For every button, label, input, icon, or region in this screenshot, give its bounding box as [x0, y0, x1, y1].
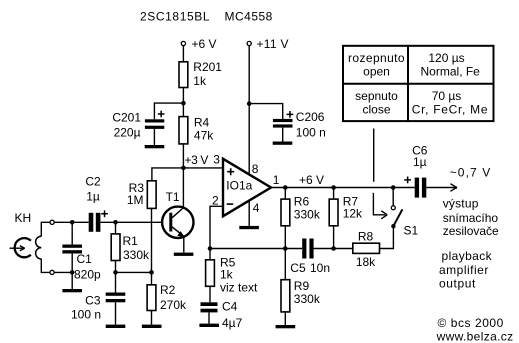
wire R9 to ground	[284, 312, 286, 325]
resistor R201	[179, 62, 188, 88]
ground under C206	[273, 142, 293, 145]
svg-text:2SC1815BL: 2SC1815BL	[140, 9, 210, 23]
svg-text:C206: C206	[296, 110, 325, 124]
node +3V	[181, 166, 186, 171]
svg-text:+11 V: +11 V	[257, 37, 289, 51]
svg-text:100 n: 100 n	[71, 308, 101, 322]
svg-text:10n: 10n	[310, 261, 330, 275]
wire R1 to bias node	[115, 261, 117, 273]
svg-text:100 n: 100 n	[296, 125, 326, 139]
ground under pin 4	[239, 226, 259, 229]
svg-text:zesilovače: zesilovače	[443, 224, 499, 238]
ground under C1	[62, 289, 82, 292]
svg-text:output: output	[439, 277, 476, 291]
wire R4 to +3V node	[182, 144, 184, 168]
wire C1 bottom	[71, 254, 73, 273]
node R2 top	[149, 270, 154, 275]
supply terminal +6V	[181, 41, 185, 45]
svg-text:820p: 820p	[74, 267, 101, 281]
wire node to op-amp pin 3	[183, 167, 223, 169]
resistor R5	[209, 249, 211, 260]
wire +3V node to R3	[152, 168, 184, 181]
node +11V / C206	[247, 101, 252, 106]
capacitor C206	[273, 119, 293, 122]
wire C1 node to ground	[71, 272, 73, 289]
node R5	[208, 246, 213, 251]
wire table to switch	[373, 129, 375, 182]
svg-text:1µ: 1µ	[413, 155, 427, 169]
svg-text:sepnuto: sepnuto	[355, 89, 398, 103]
wire C3 to ground	[115, 302, 117, 324]
svg-text:C201: C201	[112, 110, 141, 124]
supply terminal +11V	[247, 41, 251, 45]
node R1/C3	[113, 270, 118, 275]
svg-text:snímacího: snímacího	[443, 211, 499, 225]
svg-text:3: 3	[213, 153, 220, 167]
node C2/R1/base	[113, 220, 118, 225]
ground under C201	[145, 145, 165, 148]
svg-text:C3: C3	[85, 294, 101, 308]
capacitor C3	[106, 293, 126, 296]
ground under R2	[142, 325, 162, 328]
capacitor C201	[145, 119, 164, 122]
wire R7 top	[333, 188, 335, 200]
svg-text:2: 2	[212, 194, 219, 208]
capacitor C6	[415, 178, 419, 198]
svg-text:+3 V: +3 V	[185, 153, 209, 167]
wire R6 bottom	[284, 226, 286, 249]
transistor T1	[162, 207, 193, 238]
svg-text:R9: R9	[294, 279, 310, 293]
resistor R6	[281, 199, 290, 226]
wire C5 to R8	[314, 248, 353, 250]
svg-text:výstup: výstup	[443, 197, 479, 211]
node R6	[283, 185, 288, 190]
svg-text:MC4558: MC4558	[225, 9, 273, 23]
tape head symbol	[15, 238, 31, 257]
svg-text:4µ7: 4µ7	[222, 316, 243, 330]
svg-text:220µ: 220µ	[114, 125, 141, 139]
wire bottom terminal to C1	[54, 271, 72, 273]
node R7	[331, 185, 336, 190]
svg-text:R201: R201	[193, 60, 222, 74]
ground under R9	[276, 325, 296, 328]
wire node to R1	[115, 222, 117, 234]
switch S1 open contact	[391, 206, 395, 210]
svg-text:KH: KH	[15, 211, 32, 225]
svg-text:Normal, Fe: Normal, Fe	[421, 65, 481, 79]
switch S1 pole dot	[391, 224, 395, 228]
wire terminal to C2	[54, 221, 88, 223]
svg-text:70 µs: 70 µs	[432, 89, 462, 103]
resistor R7	[329, 199, 338, 226]
emitter wire to ground	[183, 236, 185, 253]
svg-text:R1: R1	[123, 234, 139, 248]
capacitor C1	[62, 245, 82, 248]
svg-text:1k: 1k	[220, 267, 234, 281]
svg-text:C4: C4	[222, 300, 238, 314]
svg-text:© bcs 2000: © bcs 2000	[438, 316, 504, 330]
resistor R9	[281, 280, 290, 312]
input terminal bottom	[50, 270, 54, 274]
wire node to C201	[154, 103, 183, 119]
bias line R1/R2	[116, 271, 152, 273]
svg-text:S1: S1	[404, 224, 419, 238]
pin 4 wire	[248, 202, 250, 226]
wire C201 to ground	[153, 129, 155, 145]
wire coil bottom to bottom line	[41, 259, 50, 273]
wire R8 to S1	[380, 226, 394, 248]
node R7 bottom	[331, 246, 336, 251]
wire C2 to base node	[100, 221, 161, 223]
table of time constants	[343, 46, 494, 121]
svg-text:+6 V: +6 V	[192, 37, 217, 51]
node R6/R9	[283, 246, 288, 251]
svg-text:C2: C2	[85, 175, 101, 189]
svg-text:R2: R2	[160, 283, 176, 297]
op-amp minus input mark	[227, 203, 234, 205]
wire C1 top	[71, 222, 73, 244]
svg-text:R8: R8	[358, 229, 374, 243]
svg-text:1µ: 1µ	[86, 189, 100, 203]
switch S1 lever	[394, 209, 403, 225]
ground under C3	[106, 325, 126, 328]
switch S1 wire from output line	[392, 188, 394, 206]
wire C206 to ground	[282, 128, 284, 142]
input terminal top	[50, 220, 54, 224]
resistor R3	[147, 181, 156, 209]
wire R201 to node	[182, 88, 184, 117]
svg-text:12k: 12k	[343, 206, 363, 220]
svg-text:amplifier: amplifier	[439, 263, 489, 277]
capacitor C2	[89, 213, 94, 232]
svg-text:330k: 330k	[123, 248, 150, 262]
wire R6 top	[284, 188, 286, 200]
svg-text:playback: playback	[442, 249, 493, 263]
wire R2 to ground	[151, 311, 153, 325]
capacitor C5	[302, 239, 306, 259]
ground under T1	[174, 253, 194, 256]
wire node to C206	[249, 104, 283, 119]
node C1 bottom	[70, 270, 75, 275]
svg-text:IO1a: IO1a	[226, 178, 252, 192]
svg-text:18k: 18k	[356, 255, 376, 269]
svg-text:1M: 1M	[127, 193, 144, 207]
wire coil top to input line	[41, 222, 50, 236]
wire C4 to ground	[208, 312, 210, 323]
wire +6V to R201	[182, 46, 184, 62]
wire node to C3	[115, 272, 117, 292]
resistor R8	[353, 243, 380, 253]
wire +11V down to op-amp pin 8	[248, 46, 250, 175]
node R201/C201/R4	[181, 101, 186, 106]
svg-text:open: open	[363, 65, 390, 79]
svg-text:C1: C1	[77, 252, 93, 266]
op-amp plus input mark	[227, 168, 234, 175]
svg-text:viz text: viz text	[220, 281, 258, 295]
svg-text:T1: T1	[166, 190, 180, 204]
svg-text:R6: R6	[294, 194, 310, 208]
ground under C4	[199, 324, 219, 327]
wire R2 top	[151, 272, 153, 284]
svg-text:www.belza.cz: www.belza.cz	[436, 330, 514, 343]
svg-text:Cr, FeCr, Me: Cr, FeCr, Me	[412, 103, 488, 117]
node S1/C6	[391, 185, 396, 190]
resistor R1	[111, 234, 120, 261]
wire R7 bottom	[333, 226, 335, 249]
head coil	[36, 236, 42, 259]
pin 2 wire	[210, 206, 223, 248]
resistor R2	[147, 285, 156, 311]
svg-text:330k: 330k	[294, 207, 321, 221]
output line from pin 1	[271, 187, 415, 189]
svg-text:close: close	[362, 103, 390, 117]
svg-text:270k: 270k	[160, 298, 187, 312]
svg-text:4: 4	[253, 201, 260, 215]
svg-text:~0,7 V: ~0,7 V	[450, 166, 492, 180]
wire R9 top	[284, 249, 286, 280]
node C1 top	[70, 220, 75, 225]
resistor R4	[179, 117, 188, 144]
op-amp IO1a	[223, 159, 271, 216]
svg-text:8: 8	[252, 162, 259, 176]
svg-text:rozepnuto: rozepnuto	[348, 51, 405, 65]
svg-text:120 µs: 120 µs	[428, 51, 464, 65]
capacitor C4	[201, 302, 218, 306]
wire R3 down to bias node	[151, 208, 153, 272]
feedback line	[210, 248, 302, 250]
svg-text:47k: 47k	[194, 129, 214, 143]
transistor T1 collector wire	[182, 168, 184, 209]
svg-text:R4: R4	[194, 115, 210, 129]
arrow table to switch	[373, 193, 385, 215]
svg-text:330k: 330k	[294, 292, 321, 306]
svg-text:1: 1	[273, 173, 280, 187]
svg-text:+6 V: +6 V	[299, 173, 324, 187]
output wire with arrow	[426, 187, 456, 189]
svg-text:C5: C5	[290, 261, 306, 275]
svg-text:1k: 1k	[193, 74, 207, 88]
wire R5 to C4	[209, 286, 211, 302]
